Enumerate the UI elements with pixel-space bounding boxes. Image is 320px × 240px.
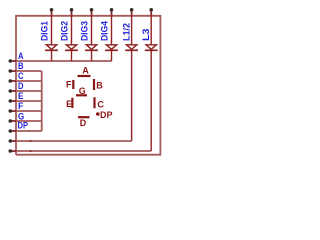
- pin L1/2 stub wire: [131, 10, 133, 16]
- display segment D bar: [78, 116, 90, 118]
- svg-text:L1/2: L1/2: [122, 23, 132, 41]
- pin DIG2 connection dot: [70, 8, 74, 12]
- svg-text:E: E: [66, 99, 72, 109]
- pin E stub wire: [10, 100, 16, 102]
- wire loop (left bus / top bus / right bus / bottom bus): [16, 16, 160, 155]
- pin DIG3 connection dot: [90, 8, 94, 12]
- pin L3 stub wire: [150, 10, 152, 16]
- svg-text:DIG4: DIG4: [99, 21, 109, 41]
- display segment G bar: [76, 94, 87, 96]
- pin G connection dot: [9, 119, 13, 123]
- wire segment row E: [16, 100, 42, 102]
- svg-text:DP: DP: [100, 110, 113, 120]
- svg-text:G: G: [79, 86, 86, 96]
- svg-text:B: B: [18, 61, 24, 71]
- svg-text:D: D: [80, 118, 87, 128]
- wire segment row DP: [16, 130, 42, 132]
- wire joint on row 9: [29, 140, 31, 142]
- svg-text:E: E: [18, 91, 24, 101]
- svg-text:DP: DP: [18, 120, 29, 130]
- pin pin 10 (unnamed) stub wire: [10, 150, 16, 152]
- pin L3 connection dot: [149, 8, 153, 12]
- pin DIG1 connection dot: [50, 8, 54, 12]
- diode D4 (DIG4): [105, 16, 118, 61]
- pin DIG1 stub wire: [51, 10, 53, 16]
- svg-text:A: A: [18, 51, 24, 61]
- svg-text:C: C: [97, 99, 104, 109]
- svg-text:F: F: [66, 79, 72, 89]
- diode D2 (DIG2): [65, 16, 78, 61]
- pin F stub wire: [10, 110, 16, 112]
- display segment A bar: [78, 75, 91, 77]
- display segment B bar: [93, 79, 95, 90]
- pin B stub wire: [10, 70, 16, 72]
- wire segment row 9 (to L1/2 cathode column): [16, 140, 132, 142]
- svg-text:A: A: [82, 66, 89, 76]
- pin B connection dot: [9, 69, 13, 73]
- pin pin 9 (unnamed) connection dot: [9, 139, 13, 143]
- svg-text:DIG2: DIG2: [59, 21, 69, 41]
- svg-text:DIG3: DIG3: [79, 21, 89, 41]
- display segment DP dot: [96, 112, 100, 116]
- diode D5 (L1/2): [125, 16, 138, 141]
- pin D stub wire: [10, 90, 16, 92]
- pin DIG4 stub wire: [111, 10, 113, 16]
- wire vertical bus joining rows B..DP: [41, 71, 43, 131]
- pin G stub wire: [10, 120, 16, 122]
- svg-text:C: C: [18, 71, 24, 81]
- wire segment row F: [16, 110, 42, 112]
- display segment C bar: [93, 97, 95, 108]
- svg-text:L3: L3: [141, 29, 151, 42]
- wire joint on row 10: [29, 150, 31, 152]
- wire segment row C: [16, 80, 42, 82]
- svg-text:B: B: [96, 80, 103, 90]
- pin L1/2 connection dot: [130, 8, 134, 12]
- pin C connection dot: [9, 79, 13, 83]
- svg-text:DIG1: DIG1: [39, 21, 49, 41]
- pin DP connection dot: [9, 129, 13, 133]
- pin pin 10 (unnamed) connection dot: [9, 149, 13, 153]
- pin C stub wire: [10, 80, 16, 82]
- diode D6 (L3): [145, 16, 158, 151]
- diode D3 (DIG3): [85, 16, 98, 61]
- display segment F bar: [72, 80, 74, 89]
- pin A stub wire: [10, 60, 16, 62]
- svg-text:D: D: [18, 81, 24, 91]
- wire segment row 10 (to L3 cathode column): [16, 150, 151, 152]
- pin A connection dot: [9, 59, 13, 63]
- pin F connection dot: [9, 109, 13, 113]
- pin DIG4 connection dot: [110, 8, 114, 12]
- pin E connection dot: [9, 99, 13, 103]
- pin D connection dot: [9, 89, 13, 93]
- svg-text:F: F: [18, 101, 24, 111]
- wire segment row A (to diode cathodes): [16, 60, 112, 62]
- display segment E bar: [71, 98, 73, 108]
- wire segment row D: [16, 90, 42, 92]
- wire segment row B: [16, 70, 42, 72]
- pin DP stub wire: [10, 130, 16, 132]
- pin pin 9 (unnamed) stub wire: [10, 140, 16, 142]
- diode D1 (DIG1): [45, 16, 58, 61]
- pin DIG3 stub wire: [91, 10, 93, 16]
- pin DIG2 stub wire: [71, 10, 73, 16]
- wire segment row G: [16, 120, 42, 122]
